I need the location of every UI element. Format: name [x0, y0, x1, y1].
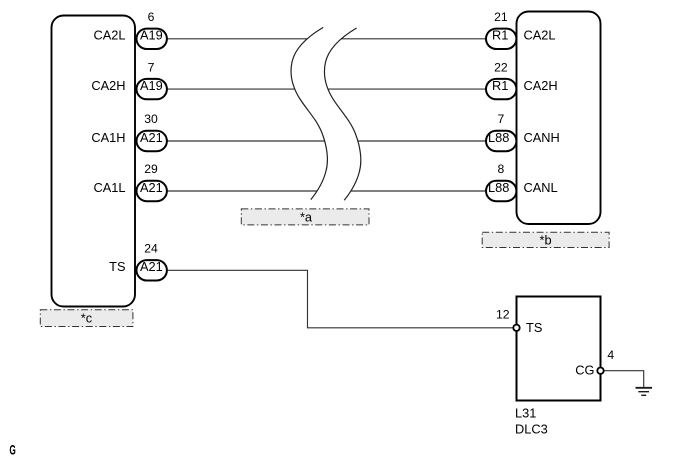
svg-text:21: 21 [494, 10, 508, 24]
pin oval A19 (pin 7) [137, 79, 167, 99]
svg-text:L31: L31 [515, 406, 536, 421]
pin oval A21 (pin 24, TS) [137, 260, 167, 280]
wire break band (white) [291, 27, 361, 200]
pin oval A19 (pin 6) [137, 29, 167, 49]
wire CA1H row [162, 140, 488, 142]
svg-text:R1: R1 [492, 78, 508, 93]
svg-text:A19: A19 [140, 78, 163, 93]
svg-text:A21: A21 [140, 130, 163, 145]
pin oval L88 (pin 8) [486, 181, 516, 201]
note box *a [241, 209, 369, 225]
connector block right [517, 12, 601, 225]
note box *c [40, 310, 133, 327]
wire CA1L row [162, 190, 488, 192]
svg-text:CA1H: CA1H [91, 130, 125, 145]
svg-text:24: 24 [144, 242, 158, 256]
svg-text:CG: CG [575, 363, 594, 378]
wire CA2L row [162, 38, 488, 40]
pin oval L88 (pin 7) [486, 131, 516, 151]
svg-text:30: 30 [144, 112, 158, 126]
wire CG to ground [601, 371, 644, 387]
svg-text:22: 22 [494, 60, 508, 74]
svg-text:7: 7 [498, 112, 505, 126]
svg-text:CA1L: CA1L [93, 180, 125, 195]
svg-text:CANL: CANL [524, 180, 558, 195]
svg-text:7: 7 [148, 60, 155, 74]
pin oval R1 (pin 22) [486, 79, 516, 99]
pin circle 12 (TS, DLC3) [513, 325, 519, 331]
svg-text:12: 12 [496, 307, 510, 321]
svg-text:A19: A19 [140, 28, 163, 43]
svg-text:CA2L: CA2L [524, 28, 556, 43]
svg-text:*b: *b [540, 233, 552, 248]
svg-text:CA2H: CA2H [91, 78, 125, 93]
svg-text:CANH: CANH [524, 130, 560, 145]
pin circle 4 (CG, DLC3) [597, 368, 603, 374]
svg-text:DLC3: DLC3 [515, 422, 548, 437]
svg-text:*c: *c [81, 311, 93, 326]
svg-text:6: 6 [148, 10, 155, 24]
svg-text:TS: TS [109, 259, 125, 274]
svg-text:TS: TS [526, 320, 542, 335]
DLC3 box [517, 297, 601, 401]
svg-text:8: 8 [498, 162, 505, 176]
svg-text:4: 4 [607, 348, 614, 362]
wire break right curve [324, 28, 360, 200]
pin oval A21 (pin 30) [137, 131, 167, 151]
pin oval R1 (pin 21) [486, 29, 516, 49]
svg-text:A21: A21 [140, 259, 163, 274]
svg-text:L88: L88 [488, 130, 509, 145]
svg-text:*a: *a [300, 209, 313, 224]
ground [636, 388, 653, 396]
wire CA2H row [162, 88, 488, 90]
wire TS to DLC3 [162, 270, 517, 328]
svg-text:L88: L88 [488, 180, 509, 195]
connector block left (ECM) [52, 16, 136, 307]
svg-text:G: G [9, 444, 15, 458]
svg-text:R1: R1 [492, 28, 508, 43]
pin oval A21 (pin 29) [137, 181, 167, 201]
svg-text:29: 29 [144, 162, 158, 176]
svg-text:CA2L: CA2L [93, 28, 125, 43]
svg-text:CA2H: CA2H [524, 78, 558, 93]
note box *b [482, 232, 609, 247]
wire break left curve [291, 27, 327, 199]
svg-text:A21: A21 [140, 180, 163, 195]
